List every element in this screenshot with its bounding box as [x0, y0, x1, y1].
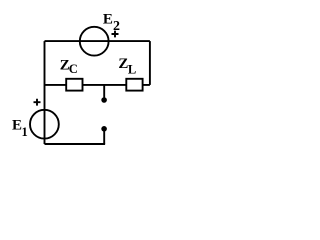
wire: middle horizontal wire: [45, 84, 150, 86]
voltage source E2 (circle on top wire): [80, 27, 109, 56]
svg-text:E: E: [103, 11, 113, 27]
impedance Z_C (box on middle wire): [66, 79, 82, 91]
wire: left vertical wire: [44, 41, 46, 144]
wire: stub from lower terminal down to bottom wire: [103, 129, 105, 144]
wire: bottom wire from left corner to lower terminal stub: [45, 143, 106, 145]
impedance Z_L (box on middle wire): [126, 79, 142, 91]
svg-text:1: 1: [22, 125, 28, 139]
wire: stub from middle wire down to upper terminal: [103, 85, 105, 100]
wire: right vertical wire: [149, 41, 151, 85]
plus sign of E1: [34, 99, 41, 106]
wire: top wire from left corner to right corner: [45, 40, 150, 42]
node: lower terminal dot: [101, 126, 107, 132]
voltage source E1 (circle on left wire): [30, 110, 59, 139]
svg-text:E: E: [12, 118, 22, 134]
svg-text:C: C: [69, 62, 78, 76]
plus sign of E2: [112, 31, 119, 38]
node: upper terminal dot: [101, 97, 107, 103]
svg-text:L: L: [128, 62, 136, 76]
